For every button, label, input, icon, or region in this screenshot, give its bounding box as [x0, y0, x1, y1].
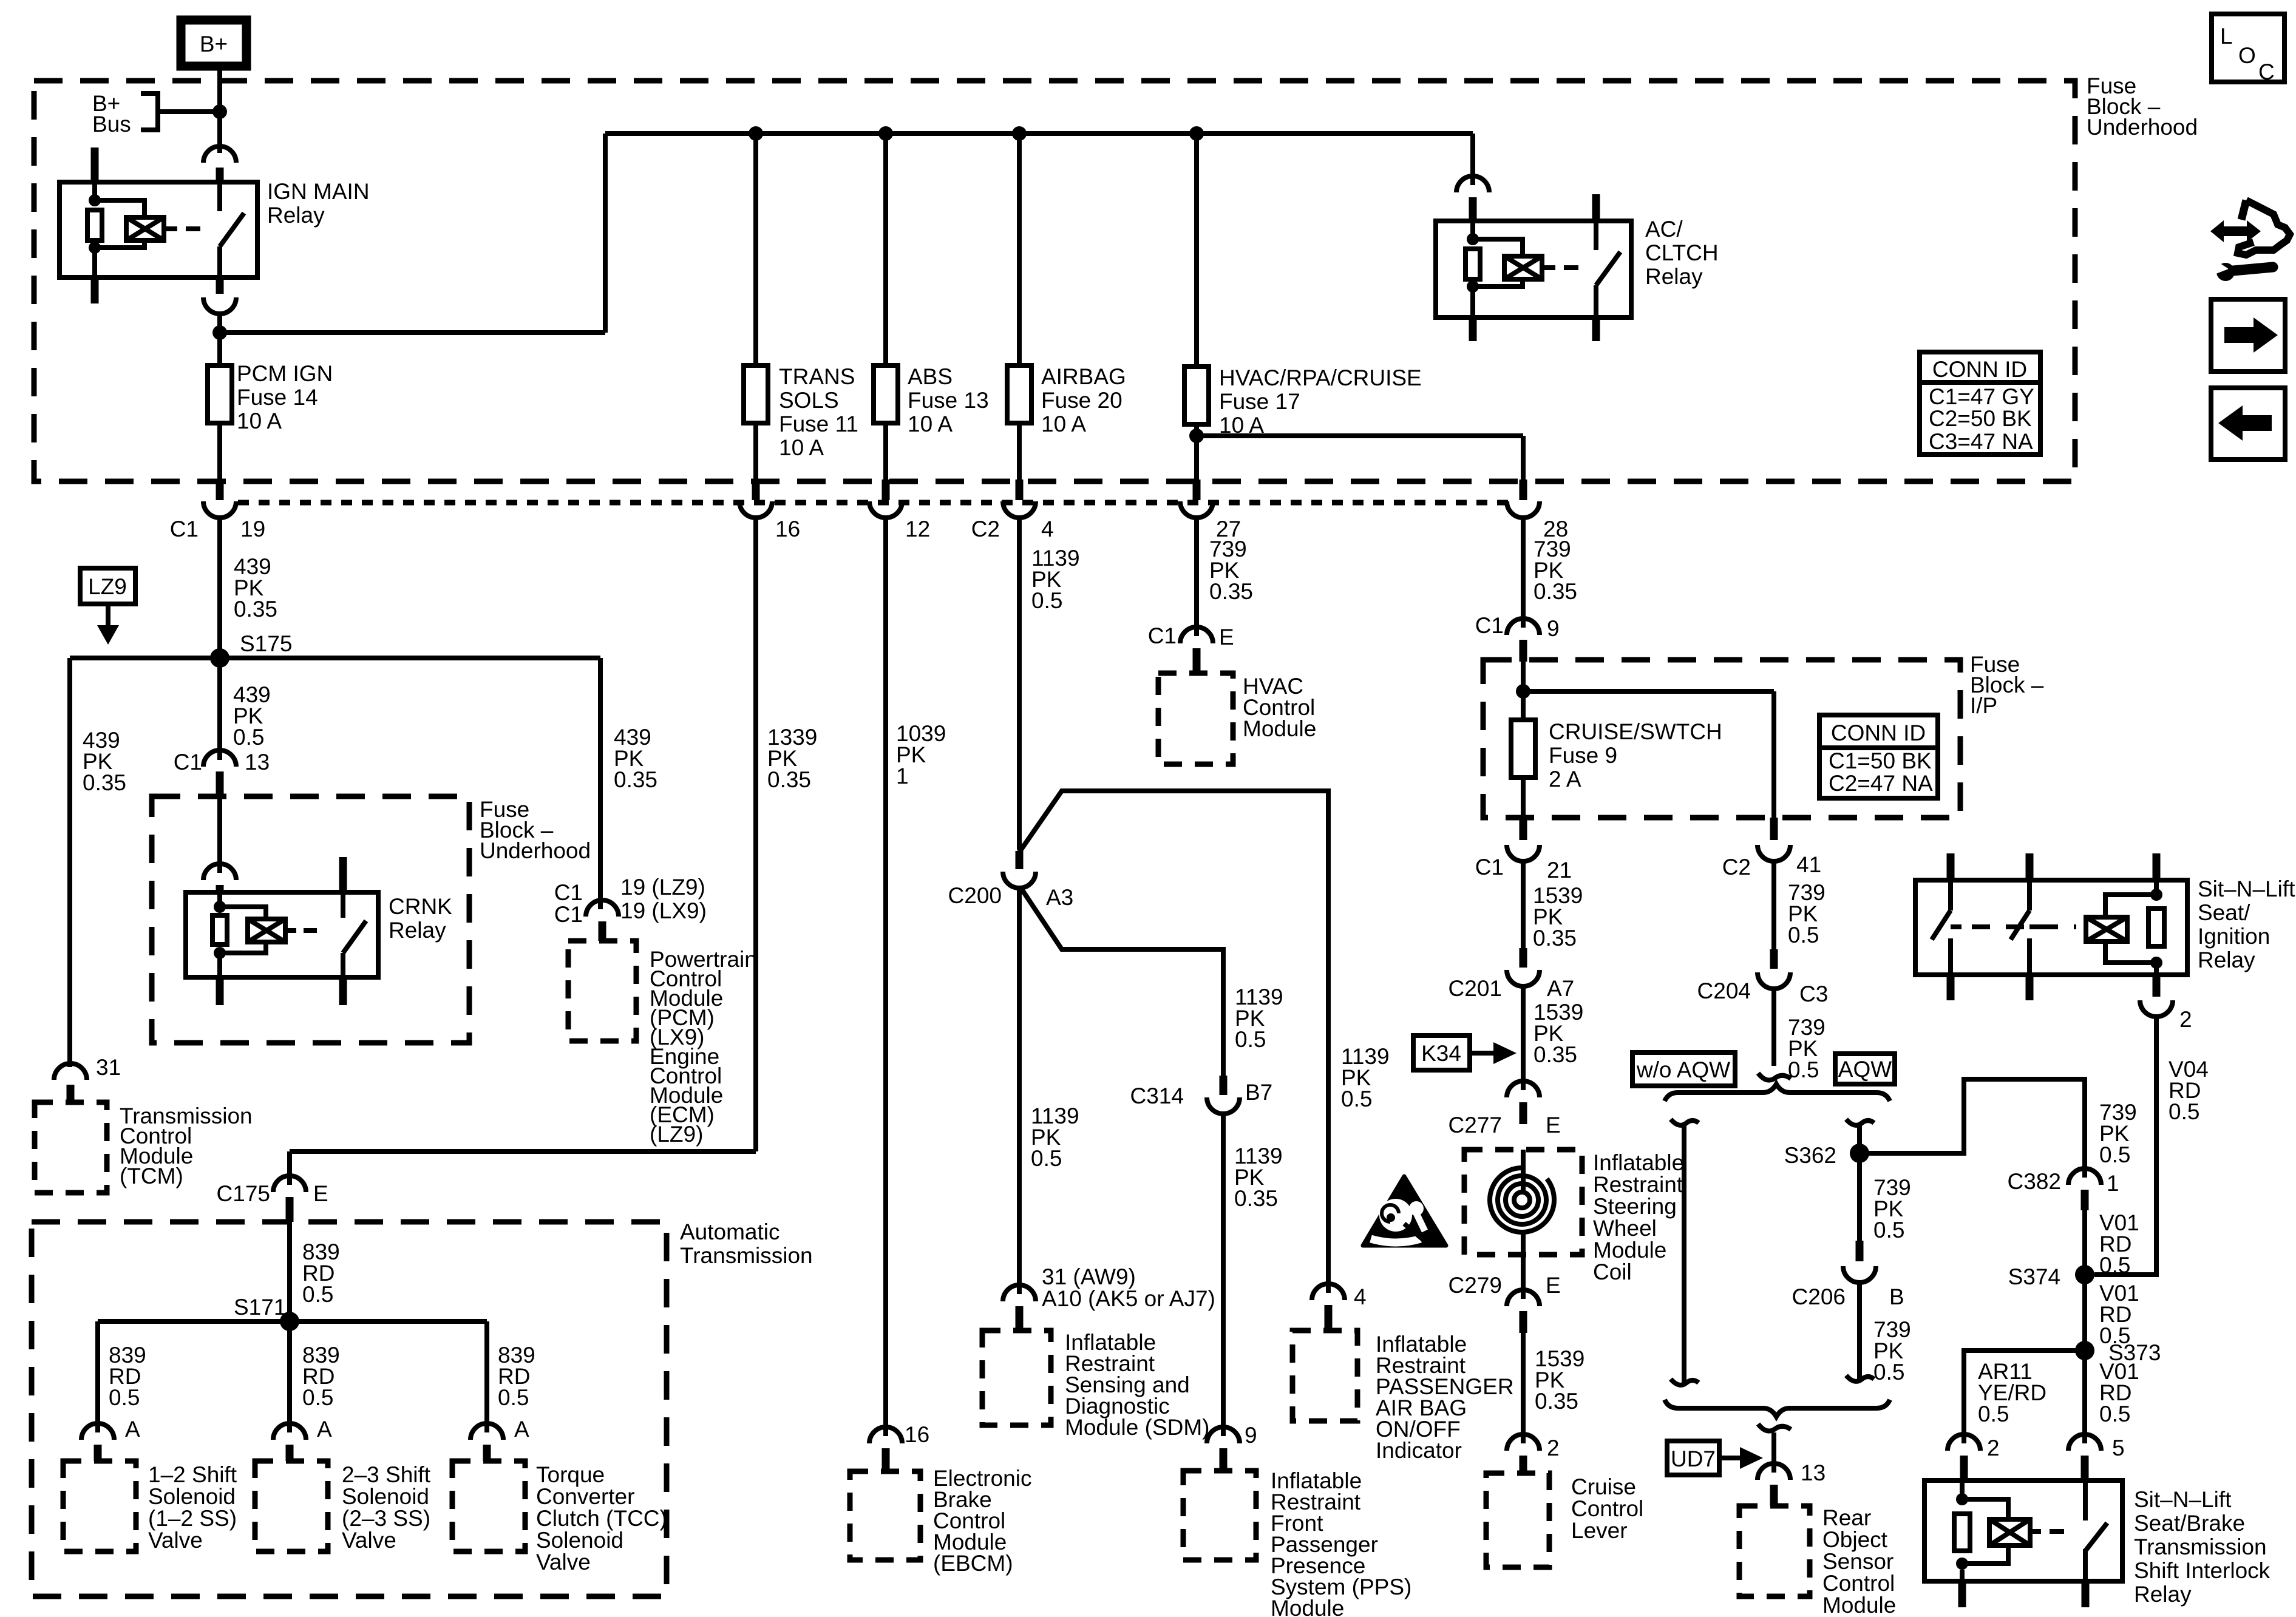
svg-text:C279: C279 — [1449, 1273, 1502, 1298]
node fuse 17 output junction — [1189, 429, 1204, 443]
wire AQW branch upper — [1846, 1119, 1874, 1241]
connector into CRNK relay coil — [203, 864, 236, 892]
svg-text:Solenoid: Solenoid — [342, 1484, 429, 1509]
module EBCM (dashed box) — [850, 1466, 1031, 1576]
module PCM/ECM (dashed box) — [568, 941, 757, 1147]
svg-text:0.5: 0.5 — [1873, 1360, 1904, 1385]
wire 1539 PK to cruise control lever — [1523, 1333, 1584, 1443]
svg-text:0.5: 0.5 — [1031, 1146, 1062, 1171]
wire 1539 PK to C201 — [1523, 861, 1583, 951]
component 1-2 shift solenoid valve (dashed box) — [63, 1461, 237, 1553]
svg-text:Torque: Torque — [536, 1462, 605, 1487]
svg-text:31 (AW9): 31 (AW9) — [1042, 1264, 1136, 1289]
connector pin 28 — [1507, 480, 1568, 541]
connector 2 into cruise control lever — [1507, 1434, 1560, 1473]
svg-text:0.35: 0.35 — [234, 597, 277, 622]
svg-text:16: 16 — [775, 517, 800, 541]
svg-text:21: 21 — [1547, 858, 1572, 883]
svg-text:0.5: 0.5 — [233, 725, 264, 750]
wire 739 PK to I/P fuse block — [1523, 517, 1577, 628]
connector C206 pin B — [1792, 1241, 1904, 1309]
svg-text:0.5: 0.5 — [1341, 1086, 1372, 1111]
connector C204 pin C3 — [1697, 949, 1829, 1006]
svg-text:19: 19 — [240, 517, 265, 541]
svg-text:13: 13 — [1801, 1460, 1826, 1485]
svg-text:Object: Object — [1822, 1527, 1888, 1552]
svg-text:10 A: 10 A — [1041, 412, 1086, 436]
option merge brace bottom — [1665, 1400, 1890, 1417]
svg-text:0.35: 0.35 — [614, 767, 657, 792]
svg-text:0.5: 0.5 — [1788, 923, 1819, 947]
svg-text:C1: C1 — [174, 750, 202, 775]
svg-text:Relay: Relay — [267, 203, 325, 228]
svg-text:C3: C3 — [1799, 981, 1828, 1006]
module SDM (dashed box) — [982, 1330, 1210, 1440]
svg-text:A: A — [317, 1417, 332, 1442]
svg-text:0.35: 0.35 — [83, 770, 126, 795]
svg-text:Fuse 11: Fuse 11 — [779, 412, 858, 436]
svg-text:10 A: 10 A — [237, 408, 282, 433]
wire top feed bus — [605, 131, 1473, 136]
connector 19 into PCM — [554, 875, 707, 941]
wire S373 branch left AR11 — [1964, 1351, 2085, 1443]
relay CRNK — [186, 857, 452, 1005]
connector 31/A10 into SDM — [1003, 1264, 1215, 1331]
svg-text:S171: S171 — [234, 1295, 286, 1320]
svg-text:0.35: 0.35 — [1209, 579, 1253, 604]
svg-text:4: 4 — [1041, 517, 1054, 541]
node S171 splice — [234, 1295, 299, 1331]
svg-text:Seat/Brake: Seat/Brake — [2134, 1511, 2245, 1536]
svg-text:UD7: UD7 — [1671, 1446, 1716, 1471]
svg-text:A: A — [514, 1417, 529, 1442]
svg-text:Fuse 9: Fuse 9 — [1549, 743, 1617, 768]
svg-text:19 (LZ9): 19 (LZ9) — [620, 875, 705, 900]
svg-text:w/o AQW: w/o AQW — [1636, 1057, 1730, 1082]
svg-text:IGN MAIN: IGN MAIN — [267, 179, 370, 204]
wire 839 RD branch 3 — [487, 1321, 535, 1432]
svg-text:C175: C175 — [217, 1181, 270, 1206]
svg-text:Shift Interlock: Shift Interlock — [2134, 1558, 2271, 1583]
svg-text:Relay: Relay — [2198, 947, 2255, 972]
svg-text:C3=47 NA: C3=47 NA — [1929, 429, 2033, 454]
wire junction to pin 28 — [1521, 436, 1526, 480]
svg-text:AC/: AC/ — [1645, 217, 1683, 242]
wire bus to AC CLTCH relay — [1470, 134, 1475, 185]
svg-text:C1: C1 — [170, 517, 199, 541]
wire inside I/P block — [1523, 662, 1774, 720]
svg-text:Cruise: Cruise — [1571, 1474, 1636, 1499]
svg-text:31: 31 — [96, 1055, 121, 1080]
svg-text:5: 5 — [2112, 1436, 2125, 1460]
svg-text:C382: C382 — [2008, 1169, 2061, 1194]
svg-text:2 A: 2 A — [1549, 767, 1581, 792]
wire S362 to C382 — [1860, 1079, 2137, 1178]
svg-text:Relay: Relay — [1645, 264, 1703, 289]
wire 739 PK S362 to C206 — [1873, 1175, 1911, 1242]
option split brace top — [1665, 1084, 1890, 1101]
wire B+ to IGN MAIN relay — [217, 66, 222, 153]
underhood connector line C1 (dotted) — [238, 500, 1510, 506]
svg-text:E: E — [1546, 1113, 1561, 1137]
connector C1 pin E into HVAC module — [1148, 623, 1234, 673]
connector C277 pin E — [1449, 1081, 1561, 1137]
svg-text:0.5: 0.5 — [302, 1385, 333, 1410]
connector C279 pin E — [1449, 1255, 1561, 1333]
svg-text:0.35: 0.35 — [1535, 1389, 1578, 1414]
svg-text:2: 2 — [1547, 1436, 1560, 1460]
connector pin 16 — [739, 423, 800, 541]
svg-text:0.5: 0.5 — [1788, 1057, 1819, 1082]
svg-text:(1–2 SS): (1–2 SS) — [148, 1506, 237, 1531]
module rear object sensor control module (dashed box) — [1739, 1505, 1896, 1617]
svg-text:Inflatable: Inflatable — [1593, 1150, 1684, 1175]
wire 439 PK to S175 — [220, 517, 277, 658]
node S362 splice — [1784, 1143, 1869, 1168]
connector C201 pin A7 — [1449, 948, 1575, 1001]
svg-text:0.35: 0.35 — [1234, 1186, 1278, 1211]
connector pin 27 — [1180, 480, 1241, 541]
svg-text:B+: B+ — [200, 32, 228, 56]
fuse block underhood boundary (dashed box) — [34, 81, 2075, 481]
fuse PCM IGN Fuse 14 10A — [208, 333, 333, 480]
svg-text:ABS: ABS — [908, 364, 953, 389]
svg-text:Valve: Valve — [342, 1528, 396, 1553]
wire 839 RD branch 1 — [98, 1321, 146, 1432]
svg-text:Fuse 17: Fuse 17 — [1219, 389, 1300, 414]
svg-text:Clutch (TCC): Clutch (TCC) — [536, 1506, 667, 1531]
module cruise control lever (dashed box) — [1486, 1473, 1643, 1567]
relay sit-n-lift seat/ignition — [1915, 853, 2295, 1000]
svg-text:Sit–N–Lift: Sit–N–Lift — [2134, 1487, 2232, 1512]
fuse ABS Fuse 13 10A — [874, 364, 989, 436]
connector C200 pin A3 — [948, 851, 1074, 910]
svg-text:SOLS: SOLS — [779, 388, 839, 413]
svg-text:HVAC/RPA/CRUISE: HVAC/RPA/CRUISE — [1219, 365, 1422, 390]
wire S175 horizontal — [70, 656, 600, 660]
svg-text:Bus: Bus — [92, 112, 131, 137]
svg-text:C206: C206 — [1792, 1284, 1846, 1309]
automatic transmission boundary (dashed box) — [32, 1222, 667, 1596]
wire IGN MAIN relay output to bus riser — [220, 134, 605, 333]
wire 439 PK left branch to TCM — [70, 658, 126, 1067]
svg-text:41: 41 — [1796, 852, 1821, 877]
svg-text:10 A: 10 A — [779, 435, 824, 460]
svg-text:1–2 Shift: 1–2 Shift — [148, 1462, 237, 1487]
svg-text:Valve: Valve — [536, 1550, 591, 1575]
wire 439 PK center to CRNK relay — [220, 658, 271, 760]
connector 31 into TCM — [54, 1055, 121, 1102]
B+ Bus bar symbol — [92, 91, 220, 137]
wire w/o AQW branch — [1671, 1119, 1699, 1385]
component steering wheel module coil (dashed box with spiral) — [1464, 1150, 1684, 1284]
svg-text:(TCM): (TCM) — [120, 1164, 183, 1188]
svg-text:Transmission: Transmission — [2134, 1534, 2267, 1559]
svg-text:(2–3 SS): (2–3 SS) — [342, 1506, 430, 1531]
svg-text:C201: C201 — [1449, 976, 1502, 1001]
svg-text:19 (LX9): 19 (LX9) — [620, 898, 707, 923]
connector 4 into indicator — [1312, 1284, 1367, 1331]
node B+ bus junction — [212, 104, 227, 119]
fuse AIRBAG Fuse 20 10A — [1007, 364, 1126, 436]
forward arrow box — [2211, 299, 2285, 371]
B+ terminal box — [181, 20, 246, 66]
node bus tap HVAC — [1189, 126, 1204, 141]
svg-text:2: 2 — [1987, 1436, 2000, 1460]
wire V01 RD S373 to interlock relay — [2085, 1351, 2139, 1443]
svg-text:E: E — [1219, 625, 1234, 649]
connector into IGN MAIN relay — [203, 146, 236, 182]
svg-text:LZ9: LZ9 — [88, 574, 127, 599]
svg-text:Sensor: Sensor — [1822, 1549, 1894, 1574]
svg-text:Lever: Lever — [1571, 1518, 1628, 1543]
svg-text:0.5: 0.5 — [1235, 1027, 1266, 1052]
svg-text:0.35: 0.35 — [1533, 1042, 1577, 1067]
svg-text:Control: Control — [1822, 1571, 1895, 1596]
svg-text:2: 2 — [2179, 1007, 2192, 1032]
svg-text:Control: Control — [1571, 1496, 1643, 1521]
connector 16 into EBCM — [869, 1422, 929, 1471]
wire 1139 PK to PPS module — [1223, 1113, 1283, 1436]
module PPS (dashed box) — [1183, 1468, 1411, 1617]
svg-text:Underhood: Underhood — [480, 838, 591, 863]
connector C1 pin 9 into I/P block — [1475, 613, 1560, 662]
wire break squiggle above split — [1758, 1073, 1791, 1080]
connector C2 pin 4 — [971, 423, 1054, 541]
module HVAC control module (dashed box) — [1158, 673, 1316, 764]
svg-text:Steering: Steering — [1593, 1194, 1677, 1219]
svg-text:Fuse 20: Fuse 20 — [1041, 388, 1123, 413]
svg-text:AQW: AQW — [1838, 1057, 1892, 1082]
svg-text:S175: S175 — [240, 631, 292, 656]
svg-text:CONN ID: CONN ID — [1831, 720, 1926, 745]
svg-text:A3: A3 — [1046, 885, 1073, 910]
svg-text:0.35: 0.35 — [1533, 926, 1577, 951]
svg-text:E: E — [313, 1181, 328, 1206]
svg-text:C: C — [2258, 59, 2275, 84]
option label AQW — [1835, 1054, 1895, 1084]
wire 1039 PK to EBCM — [886, 517, 946, 1436]
svg-text:K34: K34 — [1421, 1041, 1461, 1066]
node S175 splice — [210, 631, 292, 668]
svg-text:S374: S374 — [2008, 1264, 2060, 1289]
module TCM (dashed box) — [35, 1102, 253, 1193]
svg-text:I/P: I/P — [1970, 693, 1997, 718]
module passenger air bag on/off indicator (dashed box) — [1292, 1331, 1514, 1463]
svg-text:12: 12 — [905, 517, 930, 541]
svg-text:(LZ9): (LZ9) — [650, 1122, 703, 1147]
svg-text:16: 16 — [905, 1422, 929, 1447]
wire 739 PK to option split — [1774, 988, 1826, 1082]
connector C2 pin 41 — [1722, 818, 1821, 880]
svg-text:4: 4 — [1354, 1284, 1367, 1309]
svg-text:Wheel: Wheel — [1593, 1216, 1657, 1241]
fuse block I/P boundary (dashed box) — [1483, 660, 1960, 818]
svg-text:PCM IGN: PCM IGN — [237, 361, 333, 386]
wire into CRNK relay — [217, 796, 222, 873]
air bag warning triangle — [1363, 1176, 1446, 1246]
LZ9 option box with arrow — [80, 568, 135, 645]
wire bus to TRANS SOLS fuse — [753, 134, 758, 365]
wire fuse 17 to junction — [1197, 424, 1523, 480]
wire V01 RD S374 to S373 — [2085, 1275, 2139, 1351]
connector 2 below ignition relay — [2140, 975, 2192, 1032]
svg-text:Sit–N–Lift: Sit–N–Lift — [2198, 876, 2295, 901]
svg-text:Ignition: Ignition — [2198, 924, 2270, 949]
node S373 splice — [2075, 1340, 2161, 1365]
svg-text:C204: C204 — [1697, 978, 1751, 1003]
node bus tap TRANS SOLS — [749, 126, 763, 141]
svg-text:S362: S362 — [1784, 1143, 1836, 1168]
wire C200 upper branch to air bag indicator — [1019, 791, 1390, 1293]
svg-text:1: 1 — [2107, 1171, 2119, 1196]
svg-text:0.5: 0.5 — [498, 1385, 529, 1410]
wire 439 PK right branch to PCM — [600, 658, 657, 909]
svg-text:Solenoid: Solenoid — [536, 1528, 623, 1553]
connector C382 pin 1 — [2008, 1168, 2119, 1210]
svg-text:0.5: 0.5 — [1031, 588, 1062, 613]
svg-text:C1: C1 — [1475, 855, 1504, 880]
connector 2 into interlock relay — [1948, 1434, 2000, 1480]
svg-text:Restraint: Restraint — [1593, 1172, 1683, 1197]
svg-text:Relay: Relay — [389, 918, 446, 943]
connector C1 pin 21 — [1475, 778, 1572, 883]
LOC reference box — [2212, 14, 2284, 84]
svg-text:C2=50 BK: C2=50 BK — [1929, 406, 2032, 431]
wire break squiggle below merge — [1758, 1424, 1791, 1473]
svg-text:Module (SDM): Module (SDM) — [1065, 1415, 1210, 1440]
back arrow box — [2211, 388, 2285, 459]
CONN ID table I/P — [1819, 715, 1938, 798]
connector into AC CLTCH relay — [1456, 176, 1489, 221]
svg-text:C1=47 GY: C1=47 GY — [1929, 384, 2034, 409]
svg-text:Module: Module — [1243, 716, 1316, 741]
relay AC/CLTCH — [1436, 194, 1719, 341]
svg-text:C2: C2 — [971, 517, 1000, 541]
connector C314 pin B7 — [1130, 1076, 1273, 1114]
wire bus to ABS fuse — [883, 134, 888, 365]
wire 839 RD branch 2 — [290, 1321, 340, 1432]
K34 option box with arrow — [1413, 1036, 1517, 1070]
wire 1139 PK to C200 — [1019, 517, 1080, 850]
svg-text:C1: C1 — [554, 902, 583, 927]
svg-text:Seat/: Seat/ — [2198, 900, 2250, 925]
svg-text:Relay: Relay — [2134, 1582, 2192, 1607]
fuse block CRNK relay boundary (dashed box) — [152, 796, 469, 1043]
svg-text:9: 9 — [1547, 616, 1560, 641]
wire bus to HVAC fuse — [1194, 134, 1199, 367]
label automatic transmission — [680, 1219, 813, 1268]
svg-text:(EBCM): (EBCM) — [933, 1551, 1013, 1576]
wire C200 lower branch to C314 — [1021, 887, 1283, 1076]
svg-text:0.5: 0.5 — [2099, 1142, 2130, 1167]
svg-text:C2=47 NA: C2=47 NA — [1829, 771, 1933, 796]
fuse TRANS SOLS Fuse 11 10A — [744, 364, 858, 460]
svg-text:CLTCH: CLTCH — [1645, 240, 1719, 265]
connector 13 into rear object sensor module — [1758, 1460, 1826, 1506]
option label w/o AQW — [1632, 1053, 1735, 1086]
svg-text:Fuse 14: Fuse 14 — [237, 385, 318, 410]
svg-text:A: A — [125, 1417, 140, 1442]
CONN ID table underhood — [1920, 352, 2040, 455]
svg-text:L: L — [2220, 24, 2233, 49]
wire 1539 PK to C277 — [1523, 986, 1583, 1090]
svg-text:B: B — [1889, 1284, 1904, 1309]
connector A into 1-2 shift solenoid — [81, 1417, 140, 1461]
wire 739 PK to C204 — [1774, 861, 1826, 949]
svg-text:C200: C200 — [948, 883, 1002, 908]
svg-text:0.5: 0.5 — [2169, 1099, 2199, 1124]
svg-text:C1=50 BK: C1=50 BK — [1829, 748, 1932, 773]
svg-text:Indicator: Indicator — [1376, 1438, 1462, 1463]
connector below IGN MAIN relay — [203, 277, 236, 314]
svg-text:Coil: Coil — [1593, 1259, 1632, 1284]
connector A into 2-3 shift solenoid — [273, 1417, 332, 1461]
svg-text:0.5: 0.5 — [2099, 1402, 2130, 1426]
node relay output junction — [212, 325, 227, 340]
wire V01 RD C382 to S374 — [2085, 1210, 2139, 1278]
relay sit-n-lift seat/brake transmission shift interlock — [1924, 1480, 2271, 1607]
svg-text:C1: C1 — [554, 880, 583, 905]
wire 1339 PK to C175 — [290, 517, 817, 1185]
svg-text:CRNK: CRNK — [389, 894, 452, 919]
svg-text:C314: C314 — [1130, 1083, 1184, 1108]
label fuse block underhood (CRNK) — [480, 797, 591, 863]
node bus tap AIRBAG — [1012, 126, 1027, 141]
label fuse block I/P — [1970, 652, 2044, 718]
svg-text:2–3 Shift: 2–3 Shift — [342, 1462, 431, 1487]
relay IGN MAIN — [59, 147, 370, 303]
svg-text:B7: B7 — [1245, 1080, 1272, 1105]
svg-text:Transmission: Transmission — [680, 1243, 813, 1268]
svg-text:C1: C1 — [1148, 623, 1177, 648]
svg-text:E: E — [1546, 1273, 1561, 1298]
fuse CRUISE/SWTCH Fuse 9 2A — [1511, 719, 1722, 792]
connector 5 into interlock relay — [2068, 1434, 2125, 1480]
svg-text:Rear: Rear — [1822, 1505, 1871, 1530]
connector pin 12 — [869, 423, 930, 541]
svg-text:Fuse 13: Fuse 13 — [908, 388, 989, 413]
svg-text:Module: Module — [1271, 1596, 1344, 1617]
svg-text:10 A: 10 A — [908, 412, 953, 436]
wire V04 RD to S374 — [2094, 1016, 2209, 1275]
connector A into TCC solenoid — [470, 1417, 529, 1461]
UD7 option box with arrow — [1667, 1441, 1763, 1475]
svg-text:A7: A7 — [1547, 976, 1574, 1001]
node S374 splice — [2008, 1264, 2094, 1289]
svg-text:A10 (AK5 or AJ7): A10 (AK5 or AJ7) — [1042, 1286, 1215, 1311]
connector C1 pin 13 — [174, 750, 270, 796]
node I/P junction — [1516, 684, 1530, 699]
svg-text:13: 13 — [245, 750, 270, 775]
svg-text:0.5: 0.5 — [109, 1385, 140, 1410]
svg-text:0.35: 0.35 — [1533, 579, 1577, 604]
svg-text:Underhood: Underhood — [2087, 115, 2198, 140]
svg-text:Module: Module — [1822, 1593, 1896, 1617]
wire 739 PK to HVAC control module — [1197, 517, 1253, 636]
svg-text:0.5: 0.5 — [302, 1282, 333, 1307]
label fuse block underhood — [2087, 73, 2198, 140]
wire I/P junction to C2 pin 41 — [1771, 691, 1776, 818]
svg-text:O: O — [2238, 43, 2256, 68]
svg-text:0.35: 0.35 — [767, 767, 811, 792]
svg-text:CONN ID: CONN ID — [1932, 357, 2027, 382]
svg-text:Converter: Converter — [536, 1484, 634, 1509]
wire S171 horizontal — [98, 1319, 487, 1324]
wire 739 PK below C206 — [1846, 1282, 1911, 1385]
connector 9 into PPS module — [1207, 1423, 1257, 1471]
svg-text:0.5: 0.5 — [1978, 1402, 2009, 1426]
